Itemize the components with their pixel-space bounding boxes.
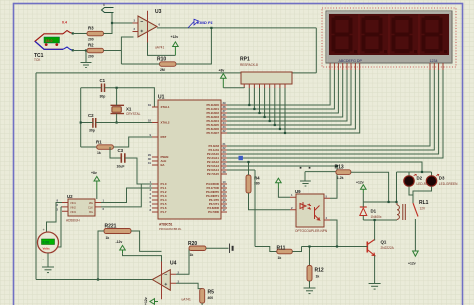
node junction riser / C2 line bbox=[80, 121, 82, 123]
U5 pin numbers bbox=[291, 193, 328, 220]
wire C3 right to P1.0 bbox=[125, 158, 152, 184]
relay switch contact bbox=[413, 203, 418, 217]
wire -12v arrow to U4 V+ pin bbox=[123, 253, 162, 261]
wire P2.2 to digit 3 bbox=[227, 70, 439, 154]
node junction terminal/pin3 bbox=[111, 22, 113, 24]
wire C1 left bbox=[81, 87, 102, 89]
wire C3 tap riser bbox=[110, 147, 121, 158]
svg-text:ABCDEFG DP: ABCDEFG DP bbox=[339, 59, 363, 63]
wire opto pin4 down to base line bbox=[330, 220, 337, 247]
wire P2.1 to digit 2 bbox=[227, 70, 434, 150]
svg-text:1k: 1k bbox=[278, 256, 282, 260]
wire P0.6 to display segment G bbox=[227, 70, 355, 129]
wire P2.4 to LED rail bbox=[227, 162, 422, 172]
wire Q1 base bbox=[365, 246, 368, 248]
node junction C2 line / crystal bbox=[116, 121, 118, 123]
node junction R13 drop / coil rail bbox=[388, 201, 390, 203]
display inner face bbox=[329, 14, 449, 55]
wire R4 top to P2.4 line bbox=[248, 162, 250, 175]
ground on R13 line bbox=[300, 181, 311, 186]
wire D3 cathode down bbox=[413, 186, 432, 195]
digit 2 segments bbox=[362, 16, 388, 53]
ground below TC1 bbox=[81, 63, 92, 68]
svg-text:R11: R11 bbox=[277, 246, 286, 252]
wire U2 pin8 to meter plus bbox=[47, 203, 63, 233]
wire TC1+ to R3 bbox=[73, 33, 87, 35]
wire U3 output bbox=[157, 27, 316, 29]
svg-text:P0.7/AD7: P0.7/AD7 bbox=[206, 131, 219, 135]
wire R10 right feedback riser to output bbox=[176, 28, 211, 64]
svg-text:R221: R221 bbox=[105, 223, 117, 229]
wire P0.4 to display segment E bbox=[227, 70, 347, 121]
LED D3 bbox=[426, 174, 439, 186]
resistor R13 bbox=[335, 165, 351, 180]
svg-text:U4: U4 bbox=[170, 261, 177, 267]
svg-text:+12v: +12v bbox=[356, 180, 364, 184]
input terminal arrow top-left bbox=[102, 8, 114, 13]
svg-text:+8v: +8v bbox=[91, 171, 97, 175]
wire long bus horizontal bbox=[36, 72, 316, 74]
node junction C1 line / crystal bbox=[116, 87, 118, 89]
svg-text:XTAL2: XTAL2 bbox=[161, 121, 170, 125]
wire RP1 pin4 down to P0.2 bbox=[259, 88, 261, 113]
capacitor C2 bbox=[88, 113, 96, 132]
svg-text:2M: 2M bbox=[160, 68, 165, 72]
ground below R12 bbox=[304, 288, 316, 294]
wire LED rail bbox=[397, 171, 432, 173]
wire coil top rail bbox=[363, 201, 397, 203]
svg-text:PROGRAM=8B.ML: PROGRAM=8B.ML bbox=[159, 227, 182, 231]
display segment pin stubs bbox=[330, 63, 360, 70]
wire U4 pin2 riser to R20 bbox=[176, 248, 189, 274]
capacitor C3 bbox=[117, 148, 125, 169]
wire U2 pin1 to P1.1 riser bbox=[101, 188, 152, 203]
wire R2 right to U3 pin2 via riser bbox=[104, 37, 134, 64]
svg-text:1k: 1k bbox=[97, 151, 101, 155]
wire meter bottom to ground bbox=[47, 253, 49, 267]
svg-text:uA741: uA741 bbox=[182, 298, 191, 302]
digit 4 segments bbox=[422, 16, 448, 53]
wire R1 right to RST bbox=[113, 137, 152, 147]
node junction P2.4 drop / rail bbox=[421, 171, 423, 173]
digit 3 segments bbox=[392, 16, 418, 53]
wire RP1 pin2 down to P0.0 bbox=[248, 88, 250, 105]
wire P0.5 to display segment F bbox=[227, 70, 351, 125]
diode D1 bbox=[360, 202, 367, 220]
wire terminal down to pin3 line bbox=[111, 13, 113, 34]
resistor R12 vertical bbox=[307, 266, 324, 282]
relay RL1 coil bbox=[397, 202, 405, 220]
U2 inner pin names bbox=[70, 201, 93, 214]
svg-text:400: 400 bbox=[208, 296, 214, 300]
wire R22 left down to output line bbox=[98, 231, 104, 280]
svg-text:BG: BG bbox=[89, 210, 93, 214]
wire +8v arrow into U2 bbox=[96, 190, 98, 199]
U2 right pin stubs bbox=[95, 203, 101, 207]
wire R2 left node down to ground bbox=[85, 51, 87, 63]
svg-text:XTAL1: XTAL1 bbox=[161, 105, 170, 109]
wire P0.1 to display segment B bbox=[227, 70, 334, 109]
wire base line to Q1 bbox=[302, 246, 365, 248]
svg-text:18: 18 bbox=[148, 119, 152, 123]
RP1 pin stubs bbox=[244, 84, 285, 88]
svg-text:X1: X1 bbox=[126, 107, 132, 112]
svg-text:Volts: Volts bbox=[43, 247, 50, 251]
op-amp U3 bbox=[133, 11, 161, 43]
wire Q1 collector stub bbox=[374, 240, 376, 241]
svg-text:C1: C1 bbox=[100, 78, 106, 83]
U5 pin stubs bbox=[290, 197, 330, 220]
svg-text:0.00: 0.00 bbox=[43, 241, 50, 245]
svg-text:P3.7/RD: P3.7/RD bbox=[208, 210, 219, 214]
wire R5 bottom off-page bbox=[201, 303, 203, 305]
svg-text:VIN2: VIN2 bbox=[70, 206, 76, 210]
svg-text:32: 32 bbox=[223, 129, 227, 133]
node junction TC1+ bbox=[72, 32, 74, 34]
svg-text:U3: U3 bbox=[155, 9, 162, 15]
wire long bus left drop bbox=[35, 73, 37, 280]
wire RP1 pin9 down to P0.7 bbox=[284, 88, 286, 133]
wire rail drop to coil rail bbox=[396, 172, 398, 202]
optocoupler U5 body bbox=[296, 194, 324, 227]
U2 pin numbers bbox=[56, 199, 104, 212]
wire RP1 pin7 down to P0.5 bbox=[274, 88, 276, 125]
U1 left pin names bbox=[161, 105, 170, 214]
net label flag KIND P1 bbox=[188, 19, 214, 28]
svg-text:+12v: +12v bbox=[144, 297, 148, 305]
svg-text:R5: R5 bbox=[208, 290, 215, 296]
svg-text:Q1: Q1 bbox=[381, 240, 387, 245]
svg-text:P1.7: P1.7 bbox=[161, 210, 167, 214]
wire R12 bottom to ground bbox=[309, 281, 311, 288]
capacitor C1 bbox=[100, 78, 106, 99]
svg-text:38.0: 38.0 bbox=[46, 39, 53, 43]
wire power arrow to U3 V- pin bbox=[148, 43, 176, 56]
U2 left pin stubs bbox=[62, 203, 68, 212]
svg-text:U1: U1 bbox=[158, 95, 165, 101]
node junction opto drop / base line bbox=[336, 245, 338, 247]
svg-text:10uF: 10uF bbox=[117, 165, 125, 169]
wire P2.0 to digit 1 bbox=[227, 70, 430, 146]
wire coil bottom rail bbox=[363, 219, 397, 221]
svg-text:AD580JH: AD580JH bbox=[66, 219, 80, 223]
svg-text:28: 28 bbox=[223, 170, 227, 174]
op-amp U4 mirrored bbox=[152, 262, 179, 300]
svg-text:31: 31 bbox=[148, 161, 152, 165]
wire P0.3 to display segment D bbox=[227, 70, 343, 117]
wire C2 right to XTAL2 bbox=[96, 122, 152, 124]
svg-text:D2: D2 bbox=[417, 176, 423, 181]
svg-text:200: 200 bbox=[88, 55, 94, 59]
LED D2 bbox=[404, 174, 417, 186]
junction dots RP1 to bus bbox=[248, 104, 286, 134]
node junction R12/base line bbox=[308, 245, 310, 247]
resistor R22 bbox=[104, 223, 131, 240]
wire R13 right to relay rail bbox=[351, 172, 389, 202]
wire P2.3 to digit 4 bbox=[227, 70, 443, 158]
svg-text:12V: 12V bbox=[420, 207, 427, 211]
wire C2 left bbox=[81, 122, 93, 124]
wire R4 bottom to opto pin2 bbox=[249, 193, 291, 210]
wire coil bottom to Q1 collector bbox=[374, 220, 376, 241]
transistor Q1 bbox=[367, 240, 374, 256]
wire R22 right jog bbox=[131, 231, 162, 251]
wire crystal bottom bbox=[116, 114, 118, 123]
+5v arrow at opto pin1 bbox=[276, 178, 282, 188]
resistor R3 bbox=[87, 26, 104, 42]
+8v power arrow at U2 bbox=[94, 176, 100, 190]
resistor R5 vertical bbox=[200, 289, 214, 304]
U1 right pin stubs bbox=[221, 105, 227, 212]
svg-text:RESPACK-8: RESPACK-8 bbox=[240, 63, 258, 67]
svg-text:CRYSTAL: CRYSTAL bbox=[126, 112, 141, 116]
reference U2 body bbox=[68, 199, 95, 216]
wire P0.2 to display segment C bbox=[227, 70, 338, 113]
svg-text:OPTOCOUPLER-NPN: OPTOCOUPLER-NPN bbox=[295, 229, 328, 233]
resistor R1 bbox=[96, 140, 113, 156]
svg-text:P2.7/A15: P2.7/A15 bbox=[207, 172, 219, 176]
svg-text:uA741: uA741 bbox=[155, 46, 164, 50]
svg-text:R20: R20 bbox=[188, 241, 197, 247]
output terminal arrow down bbox=[413, 251, 419, 256]
wire +8v to RP1 common pin bbox=[223, 87, 244, 89]
wire +12v arrow to coil rail bbox=[362, 193, 364, 202]
svg-text:+12v: +12v bbox=[408, 262, 416, 266]
svg-text:30p: 30p bbox=[89, 129, 95, 133]
wire U4 pin3 to R5 bbox=[176, 283, 202, 288]
svg-text:R10: R10 bbox=[157, 57, 166, 63]
svg-text:1234: 1234 bbox=[430, 59, 438, 63]
U5 internal LED bbox=[300, 202, 311, 210]
svg-text:1k: 1k bbox=[316, 275, 320, 279]
wire D3 anode bbox=[431, 172, 433, 176]
svg-text:D1: D1 bbox=[371, 209, 377, 214]
voltmeter body bbox=[38, 232, 59, 253]
resistor R4 vertical bbox=[246, 175, 260, 193]
svg-text:+12v: +12v bbox=[171, 35, 179, 39]
node junction R22/output bbox=[97, 278, 99, 280]
svg-text:R3: R3 bbox=[88, 26, 94, 31]
wire D2 cathode down bbox=[409, 186, 413, 195]
svg-text:RL1: RL1 bbox=[419, 200, 429, 206]
svg-text:-12v: -12v bbox=[116, 240, 123, 244]
svg-text:200: 200 bbox=[88, 38, 94, 42]
ground below Q1 bbox=[369, 284, 381, 290]
svg-text:RP1: RP1 bbox=[240, 57, 250, 63]
-12v power arrow at U4 bbox=[120, 245, 126, 253]
svg-text:1N400x: 1N400x bbox=[371, 215, 382, 219]
digit separators bbox=[359, 14, 419, 55]
svg-text:U2: U2 bbox=[67, 194, 73, 199]
wire R12 tap bbox=[309, 247, 311, 266]
wire RP1 pin8 down to P0.6 bbox=[279, 88, 281, 129]
resistor R20 bbox=[188, 241, 206, 257]
wire U3 output drop to long bus bbox=[315, 28, 317, 73]
node junction opto/P2.5 bbox=[336, 165, 338, 167]
display digit pin stubs bbox=[430, 63, 443, 70]
+8v power arrow bbox=[221, 74, 227, 88]
wire P0.0 to display segment A bbox=[227, 70, 330, 105]
svg-text:RST: RST bbox=[161, 135, 167, 139]
display selection dashed box bbox=[322, 8, 456, 67]
svg-text:C3: C3 bbox=[118, 148, 124, 153]
svg-text:C2: C2 bbox=[88, 113, 94, 118]
wire R3 right up to U3 pin3 bbox=[104, 23, 133, 34]
U1 left pin stubs bbox=[152, 107, 158, 212]
wire P0.7 to display segment DP bbox=[227, 70, 360, 133]
respack RP1 body bbox=[241, 72, 292, 84]
wire TC1+ red bbox=[63, 31, 73, 34]
wire opto pin5 up to P2.5 bbox=[330, 166, 337, 198]
svg-text:+8v: +8v bbox=[219, 68, 225, 72]
wire crystal top bbox=[116, 88, 118, 106]
wire Q1 emitter to ground bbox=[374, 256, 376, 284]
svg-text:R12: R12 bbox=[315, 268, 324, 274]
ground below meter bbox=[42, 267, 54, 273]
wire RP1 pin5 down to P0.3 bbox=[264, 88, 266, 117]
svg-text:D3: D3 bbox=[439, 176, 445, 181]
wire riser to R1 bbox=[81, 146, 97, 148]
wire R11 right riser to base line bbox=[292, 247, 301, 252]
crystal X1 bbox=[111, 105, 141, 116]
wire U2 pin2 to meter right bbox=[58, 207, 63, 247]
svg-text:19: 19 bbox=[148, 103, 152, 107]
svg-text:R2: R2 bbox=[88, 43, 94, 48]
+12v power arrow at D1 bbox=[361, 185, 367, 193]
wire RP1 pin3 down to P0.1 bbox=[253, 88, 255, 109]
svg-text:0.4: 0.4 bbox=[62, 21, 67, 25]
wire U4 output long bbox=[36, 279, 152, 281]
node junction TC1- bbox=[72, 49, 74, 51]
svg-text:6: 6 bbox=[103, 3, 105, 7]
wire ground to R13 bbox=[305, 172, 336, 181]
U1 right pin names bbox=[206, 103, 220, 214]
origin marker blue dot bbox=[239, 156, 243, 160]
svg-text:AT89C51: AT89C51 bbox=[159, 223, 173, 227]
svg-text:1k: 1k bbox=[106, 236, 110, 240]
svg-text:TCK: TCK bbox=[34, 58, 41, 62]
svg-text:R13: R13 bbox=[335, 165, 344, 171]
node junction rail/coil rail bbox=[395, 201, 397, 203]
display 7SEG-MPX4 bezel bbox=[326, 11, 452, 63]
resistor R10 bbox=[157, 57, 176, 72]
relay switch lower terminal bbox=[414, 219, 416, 251]
node junction R4/P2.4 bbox=[247, 161, 249, 163]
wire +5v arrow to opto pin1 bbox=[278, 188, 290, 197]
digit 1 segments bbox=[332, 16, 358, 53]
battery cell B1 bbox=[230, 244, 233, 254]
svg-text:1k: 1k bbox=[190, 253, 194, 257]
node junction R2 left bbox=[85, 49, 87, 51]
wire P2.6 to R11 riser bbox=[227, 169, 255, 171]
wire C1 right to XTAL1 bbox=[105, 88, 155, 107]
svg-text:ZIE: ZIE bbox=[89, 201, 93, 205]
svg-text:2N2222A: 2N2222A bbox=[381, 246, 395, 250]
MCU U1 body bbox=[158, 100, 221, 219]
relay switch common bbox=[412, 195, 414, 203]
wire D2 anode bbox=[408, 172, 410, 176]
thermocouple TC1 body bbox=[35, 34, 63, 50]
svg-text:VIN3: VIN3 bbox=[70, 210, 76, 214]
resistor R11 bbox=[277, 246, 293, 260]
U5 internal phototransistor bbox=[315, 206, 320, 221]
svg-text:U9: U9 bbox=[295, 189, 301, 194]
wire TC1- blue bbox=[63, 47, 73, 51]
svg-text:KIND P1: KIND P1 bbox=[197, 20, 214, 25]
svg-text:VIN1: VIN1 bbox=[70, 201, 76, 205]
node junction feedback/output bbox=[210, 27, 212, 29]
node junction D1/coil bottom bbox=[374, 219, 376, 221]
U4 V- arrow bbox=[150, 299, 158, 305]
svg-text:LED-GREEN: LED-GREEN bbox=[439, 182, 458, 186]
wire base line left segment bbox=[255, 247, 277, 252]
wire R20 right to battery bbox=[206, 247, 229, 249]
wire U2 pin6 to P1.0 riser bbox=[101, 184, 152, 207]
svg-text:30p: 30p bbox=[100, 94, 106, 98]
wire TC1- to R2 bbox=[73, 50, 87, 52]
no-connect dots bbox=[300, 167, 311, 169]
svg-text:CLK: CLK bbox=[88, 206, 93, 210]
resistor R2 bbox=[87, 43, 104, 59]
wire R10 left to R2 node bbox=[121, 63, 159, 65]
wire caps common riser bbox=[80, 88, 82, 147]
wire P2.5 to opto collector riser bbox=[227, 165, 337, 167]
U1 left pin numbers bbox=[148, 103, 152, 212]
svg-text:17: 17 bbox=[223, 208, 227, 212]
wire P2.6 riser down to base line bbox=[254, 170, 256, 247]
svg-text:1.2k: 1.2k bbox=[337, 176, 344, 180]
U1 right pin numbers bbox=[223, 101, 227, 212]
svg-text:R1: R1 bbox=[96, 140, 102, 145]
wire RP1 pin6 down to P0.4 bbox=[269, 88, 271, 121]
+12v power arrow at U3 bbox=[173, 42, 179, 56]
